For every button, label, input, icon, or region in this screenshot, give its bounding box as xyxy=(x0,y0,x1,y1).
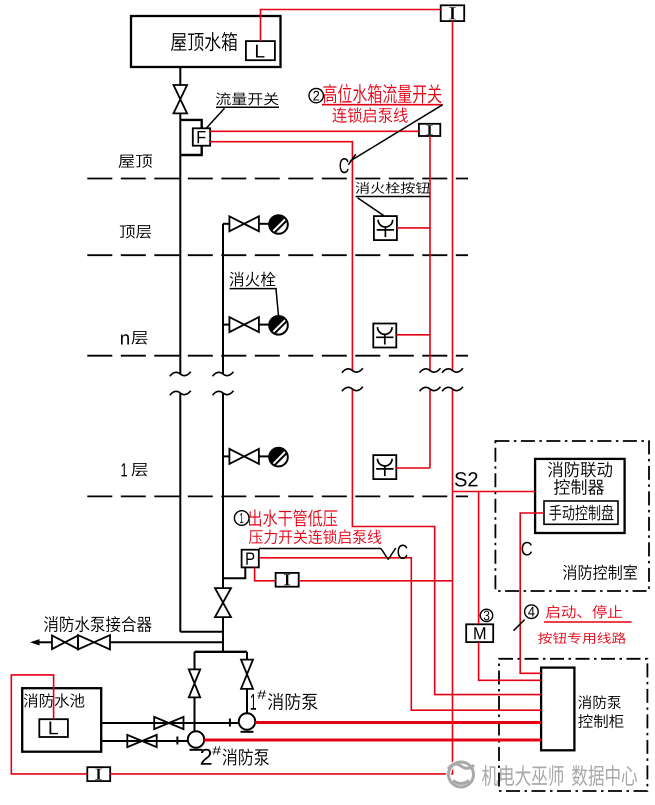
wire branch stub xyxy=(259,324,269,326)
text hydrant label xyxy=(230,272,276,287)
wire tank pipe to riser jog xyxy=(180,631,223,633)
floor line 1st-floor (dashed) xyxy=(87,495,468,497)
text fire linkage controller line2 xyxy=(554,479,604,495)
valve gate on riser xyxy=(215,588,231,617)
wire red button link 1st-floor xyxy=(396,467,430,469)
label 2 underline and diagonal with C tick xyxy=(322,104,443,106)
text I in module boxes xyxy=(449,7,456,19)
break marks on pipes xyxy=(170,372,191,376)
flange pump1 suction xyxy=(229,719,231,727)
text S2 node xyxy=(455,472,478,486)
module I4 box xyxy=(87,767,110,781)
label leader hydrant button xyxy=(356,196,430,198)
wire red S2 line to controller xyxy=(453,491,536,493)
flange pump2 suction xyxy=(176,737,178,745)
watermark logo xyxy=(449,762,474,787)
text floor top xyxy=(120,225,151,238)
wire red hydrant button riser xyxy=(429,136,431,468)
level sensor L box (tank) xyxy=(246,41,275,60)
valve pump1 discharge xyxy=(241,660,253,689)
valve pump2 discharge xyxy=(189,669,200,697)
fire linkage controller box xyxy=(535,459,625,533)
label circled 4 xyxy=(525,605,539,619)
wire suction pipe lower from pool xyxy=(101,740,188,742)
module I2 box xyxy=(419,124,440,136)
wire red button link n-floor xyxy=(396,334,430,336)
label 4 tick xyxy=(514,620,525,631)
floor line top-floor (dashed) xyxy=(87,254,468,256)
hydrant button box top-floor xyxy=(374,216,397,240)
flow switch F box xyxy=(193,128,210,145)
fire control room dashed box xyxy=(495,441,649,591)
module I3 box xyxy=(276,573,299,587)
text red outlet low pressure line2 xyxy=(249,529,381,544)
text floor roof xyxy=(119,155,152,168)
text fire control room xyxy=(563,565,637,581)
roof water tank box xyxy=(131,16,281,67)
wire red flow switch interlock line xyxy=(210,142,541,695)
cable red pump1 power xyxy=(255,721,541,724)
text floor 1 xyxy=(121,463,126,476)
valve suction upper xyxy=(154,717,183,729)
text hydrant button label xyxy=(356,182,430,194)
text 2# fire pump label xyxy=(201,749,212,765)
wire pump2 discharge lower xyxy=(194,698,196,732)
module I1 box xyxy=(441,5,465,21)
wire red tank level sensor to module I1 xyxy=(261,10,441,42)
text red outlet low pressure line1 xyxy=(249,509,337,526)
wire pressure switch stub to riser xyxy=(223,567,245,578)
wire hydrant branch xyxy=(223,324,230,326)
valve adapter 2 xyxy=(78,635,110,649)
text M in box xyxy=(474,627,485,639)
text L in tank box xyxy=(256,45,265,58)
label leader hydrant xyxy=(230,288,277,290)
text red button dedicated circuit xyxy=(538,632,626,644)
wire flow-switch bypass loop xyxy=(180,120,201,129)
wire red button link top-floor xyxy=(397,227,430,229)
text 1# fire pump label xyxy=(251,694,256,710)
valve hydrant branch xyxy=(229,216,259,231)
text red high tank flow switch line1 xyxy=(323,84,441,103)
wire branch stub xyxy=(259,455,269,457)
floor line roof (dashed) xyxy=(87,178,468,180)
wire red pressure switch interlock line xyxy=(259,558,541,710)
pump 1# fire pump xyxy=(239,713,255,729)
valve hydrant branch xyxy=(229,449,259,464)
label leader flow switch xyxy=(216,106,279,108)
text manual control panel xyxy=(549,505,613,521)
text C cable mark mid xyxy=(398,545,408,560)
text L in pool box xyxy=(49,722,58,735)
wire tank outlet pipe upper xyxy=(179,67,181,85)
wire tank pipe lower xyxy=(179,393,181,632)
text floor n xyxy=(121,334,129,344)
text C cable mark top xyxy=(340,158,349,173)
pump control cabinet dashed enclosure xyxy=(499,659,647,791)
label 4 underline xyxy=(544,621,632,623)
wire red P to module I3 to trunk xyxy=(255,567,453,580)
label circled 2 xyxy=(309,88,323,102)
text roof water tank xyxy=(171,32,237,51)
cable red pump2 power xyxy=(204,739,541,742)
text fire linkage controller line1 xyxy=(548,461,612,477)
watermark text xyxy=(482,765,637,786)
wire suction pipe upper from pool xyxy=(101,722,239,724)
text red start stop xyxy=(546,605,622,619)
wire pump discharge header xyxy=(195,651,248,653)
fire hydrant symbol xyxy=(269,215,288,234)
wire pump adapter pipe xyxy=(39,641,52,643)
text pump cabinet line1 xyxy=(578,695,621,709)
wire pump1 discharge lower xyxy=(246,689,248,713)
hydrant button box 1st-floor xyxy=(373,455,396,479)
text C cable mark control room xyxy=(522,542,532,556)
text pump cabinet line2 xyxy=(578,714,623,728)
wire pump1 discharge xyxy=(246,652,248,660)
text pump adapter label xyxy=(44,616,152,632)
label circled 1 xyxy=(234,511,249,526)
fire pool box xyxy=(22,688,101,752)
break marks on red risers xyxy=(342,368,363,372)
level sensor L box (pool) xyxy=(39,719,68,737)
valve gate below tank xyxy=(174,85,188,113)
fire hydrant symbol xyxy=(269,316,288,335)
text P in box xyxy=(246,552,254,564)
wire tank pipe mid xyxy=(179,113,181,374)
wire red pool branch to module I4 xyxy=(11,675,87,774)
text fire pool xyxy=(24,693,85,707)
text flow switch label xyxy=(216,92,279,105)
manual control panel box xyxy=(544,501,618,524)
pump control cabinet box xyxy=(541,668,574,751)
pressure switch P box xyxy=(242,550,259,568)
wire branch stub xyxy=(259,223,269,225)
wire pump2 discharge xyxy=(194,652,196,670)
wire red flow switch to module I2 xyxy=(210,130,419,132)
wire hydrant riser xyxy=(222,224,224,653)
text red high tank flow switch line2 xyxy=(332,107,407,123)
label circled 3 xyxy=(480,609,492,621)
floor line n-floor (dashed) xyxy=(87,355,468,357)
module M box xyxy=(466,624,493,642)
label 1 leader with C tick xyxy=(259,548,381,550)
valve suction lower xyxy=(127,735,156,747)
wire red manual control panel line xyxy=(520,513,544,673)
text F in box xyxy=(198,131,206,143)
pump 2# fire pump xyxy=(188,731,204,747)
hydrant button box n-floor xyxy=(373,324,396,348)
wire red signal trunk riser xyxy=(110,21,452,774)
pump adapter arrow xyxy=(30,639,40,645)
valve adapter 1 xyxy=(52,636,78,650)
valve hydrant branch xyxy=(229,317,259,332)
wire adapter pipe to riser xyxy=(110,641,223,643)
wire hydrant branch xyxy=(223,455,230,457)
wire red manual module M line xyxy=(479,492,541,681)
wire hydrant branch xyxy=(223,223,230,225)
fire hydrant symbol xyxy=(269,448,288,467)
